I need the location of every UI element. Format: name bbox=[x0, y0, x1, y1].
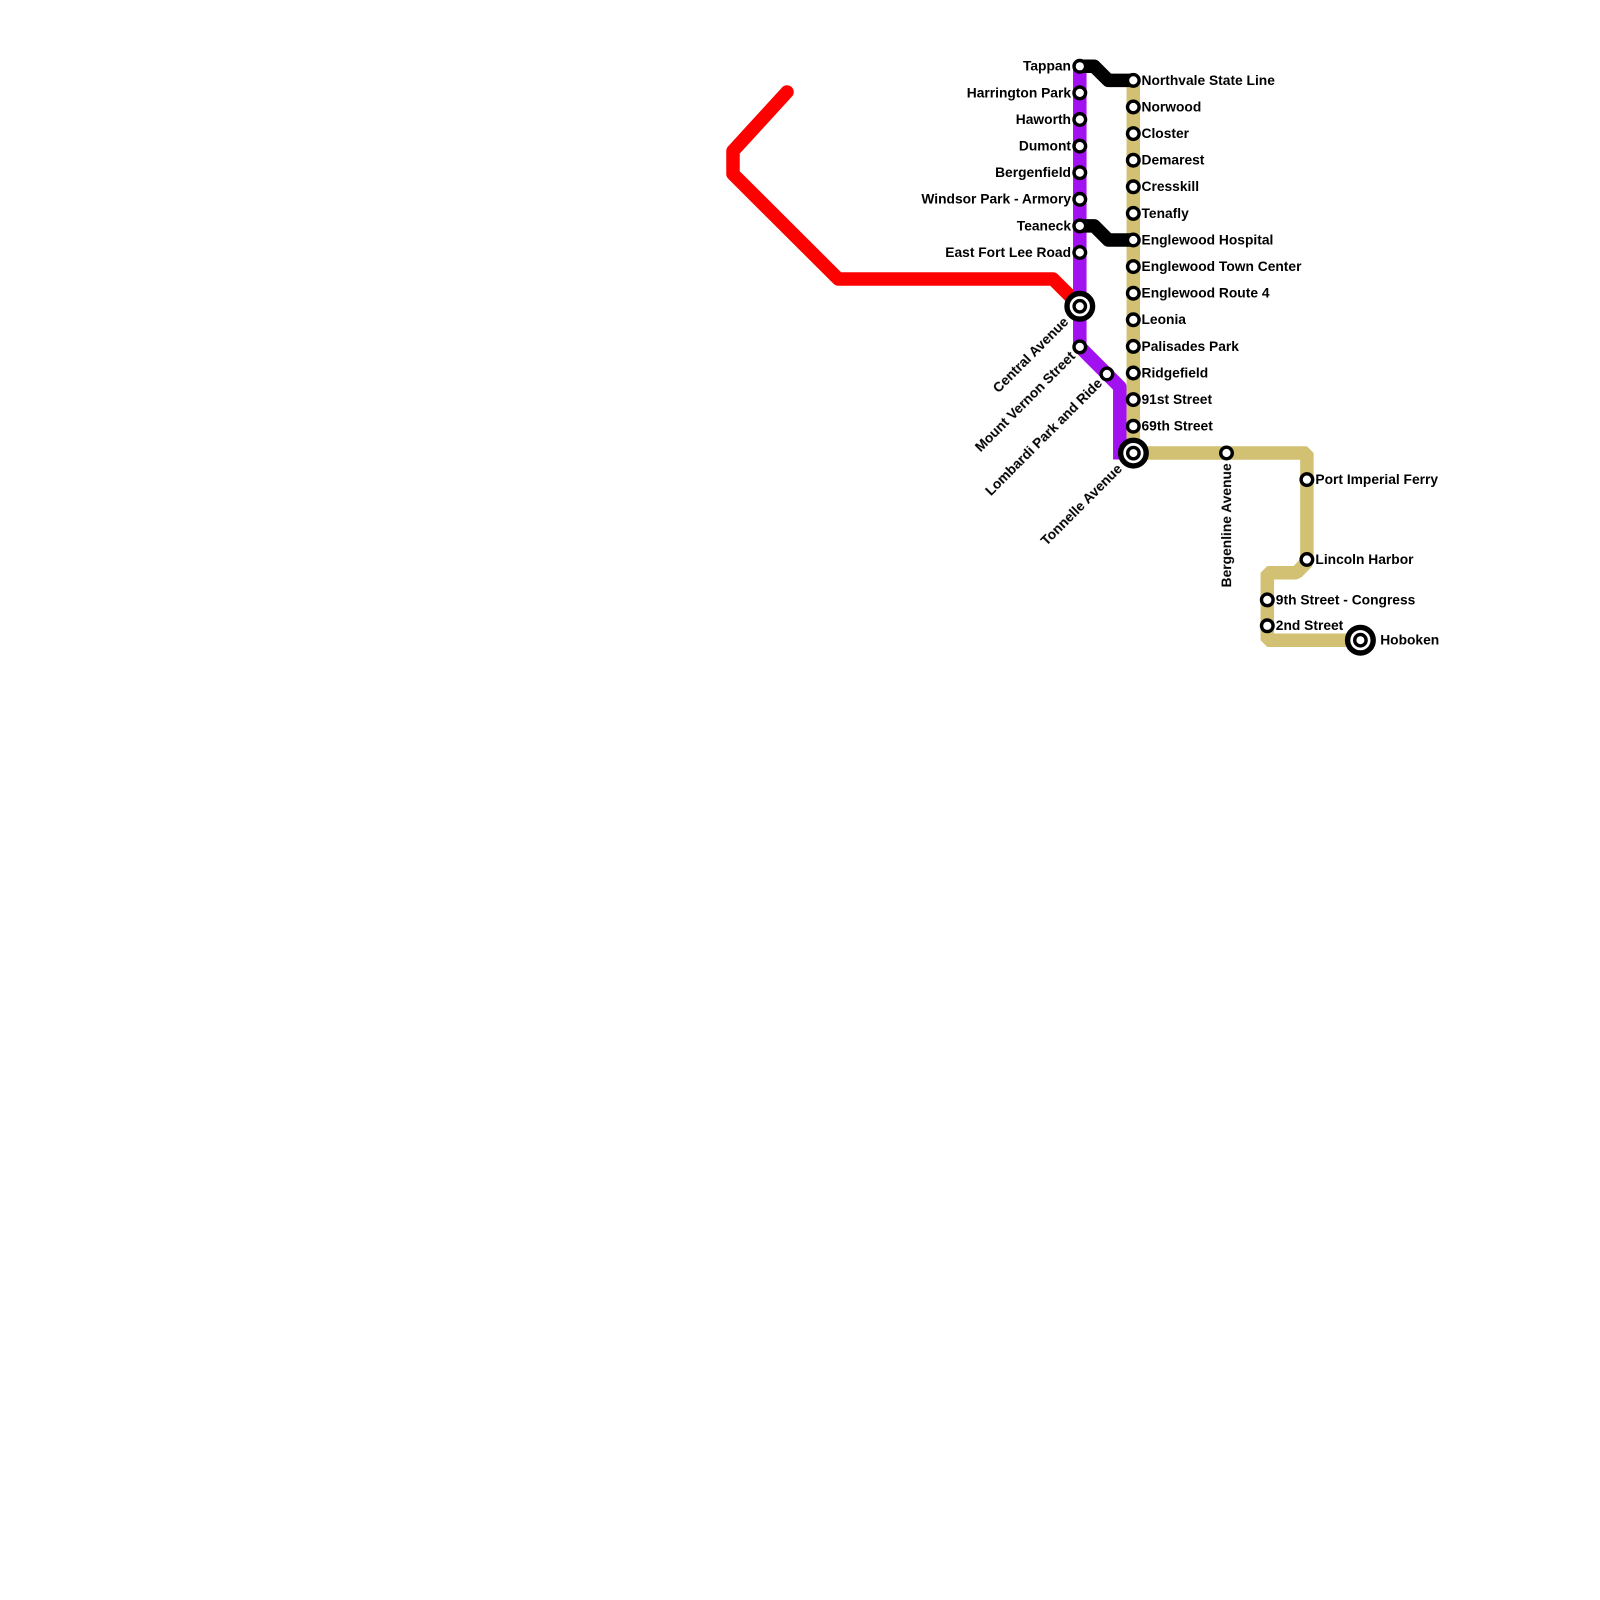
station 2nd Street bbox=[1262, 620, 1274, 632]
svg-text:91st Street: 91st Street bbox=[1142, 392, 1213, 407]
station Englewood Route 4 bbox=[1128, 287, 1140, 299]
station Northvale State Line bbox=[1128, 75, 1140, 87]
station 91st Street bbox=[1128, 394, 1140, 406]
svg-text:Closter: Closter bbox=[1142, 126, 1190, 141]
svg-text:Tappan: Tappan bbox=[1023, 59, 1071, 74]
svg-text:2nd Street: 2nd Street bbox=[1276, 618, 1344, 633]
station Norwood bbox=[1128, 101, 1140, 113]
station Bergenline Avenue bbox=[1221, 447, 1233, 459]
svg-text:Demarest: Demarest bbox=[1142, 153, 1205, 168]
svg-text:Englewood Hospital: Englewood Hospital bbox=[1142, 232, 1274, 247]
svg-text:Norwood: Norwood bbox=[1142, 99, 1202, 114]
svg-text:Ridgefield: Ridgefield bbox=[1142, 365, 1209, 380]
station Harrington Park bbox=[1074, 87, 1086, 99]
purple line bbox=[1080, 66, 1120, 459]
svg-text:Windsor Park - Armory: Windsor Park - Armory bbox=[921, 192, 1071, 207]
station Windsor Park - Armory bbox=[1074, 194, 1086, 206]
station Bergenfield bbox=[1074, 167, 1086, 179]
station Englewood Hospital bbox=[1128, 234, 1140, 246]
red line bbox=[733, 92, 1080, 306]
svg-text:Englewood Town Center: Englewood Town Center bbox=[1142, 259, 1303, 274]
interchange Tonnelle Avenue bbox=[1121, 440, 1147, 466]
svg-text:Palisades Park: Palisades Park bbox=[1142, 339, 1240, 354]
svg-text:Leonia: Leonia bbox=[1142, 312, 1187, 327]
station Lombardi Park and Ride bbox=[1101, 368, 1113, 380]
svg-text:Hoboken: Hoboken bbox=[1380, 633, 1439, 648]
station Tappan bbox=[1074, 61, 1086, 73]
station East Fort Lee Road bbox=[1074, 247, 1086, 259]
station Tenafly bbox=[1128, 208, 1140, 220]
svg-text:Dumont: Dumont bbox=[1019, 139, 1072, 154]
station 69th Street bbox=[1128, 420, 1140, 432]
svg-text:East Fort Lee Road: East Fort Lee Road bbox=[945, 245, 1071, 260]
svg-text:Haworth: Haworth bbox=[1016, 112, 1071, 127]
svg-text:69th Street: 69th Street bbox=[1142, 419, 1214, 434]
tan line bbox=[1133, 80, 1360, 640]
station Lincoln Harbor bbox=[1301, 554, 1313, 566]
station Ridgefield bbox=[1128, 367, 1140, 379]
station Palisades Park bbox=[1128, 341, 1140, 353]
svg-text:Englewood Route 4: Englewood Route 4 bbox=[1142, 286, 1270, 301]
svg-text:Tenafly: Tenafly bbox=[1142, 206, 1190, 221]
interchange Central Avenue bbox=[1067, 294, 1093, 320]
station Haworth bbox=[1074, 114, 1086, 126]
svg-text:Bergenfield: Bergenfield bbox=[995, 165, 1071, 180]
black connector Tappan-Northvale bbox=[1080, 66, 1134, 80]
station Mount Vernon Street bbox=[1074, 341, 1086, 353]
station Cresskill bbox=[1128, 181, 1140, 193]
station Demarest bbox=[1128, 154, 1140, 166]
svg-text:9th Street - Congress: 9th Street - Congress bbox=[1276, 592, 1416, 607]
station Teaneck bbox=[1074, 220, 1086, 232]
svg-text:Cresskill: Cresskill bbox=[1142, 179, 1200, 194]
station Closter bbox=[1128, 128, 1140, 140]
svg-text:Bergenline Avenue: Bergenline Avenue bbox=[1219, 463, 1234, 587]
interchange Hoboken bbox=[1348, 627, 1374, 653]
svg-text:Northvale State Line: Northvale State Line bbox=[1142, 73, 1276, 88]
svg-text:Harrington Park: Harrington Park bbox=[967, 85, 1072, 100]
svg-text:Port Imperial Ferry: Port Imperial Ferry bbox=[1315, 472, 1438, 487]
station Leonia bbox=[1128, 314, 1140, 326]
black connector Teaneck-Englewood Hospital bbox=[1080, 226, 1134, 240]
svg-text:Lincoln Harbor: Lincoln Harbor bbox=[1315, 552, 1414, 567]
station 9th Street - Congress bbox=[1262, 594, 1274, 606]
svg-text:Teaneck: Teaneck bbox=[1017, 218, 1072, 233]
station Englewood Town Center bbox=[1128, 261, 1140, 273]
station Dumont bbox=[1074, 140, 1086, 152]
station Port Imperial Ferry bbox=[1301, 474, 1313, 486]
